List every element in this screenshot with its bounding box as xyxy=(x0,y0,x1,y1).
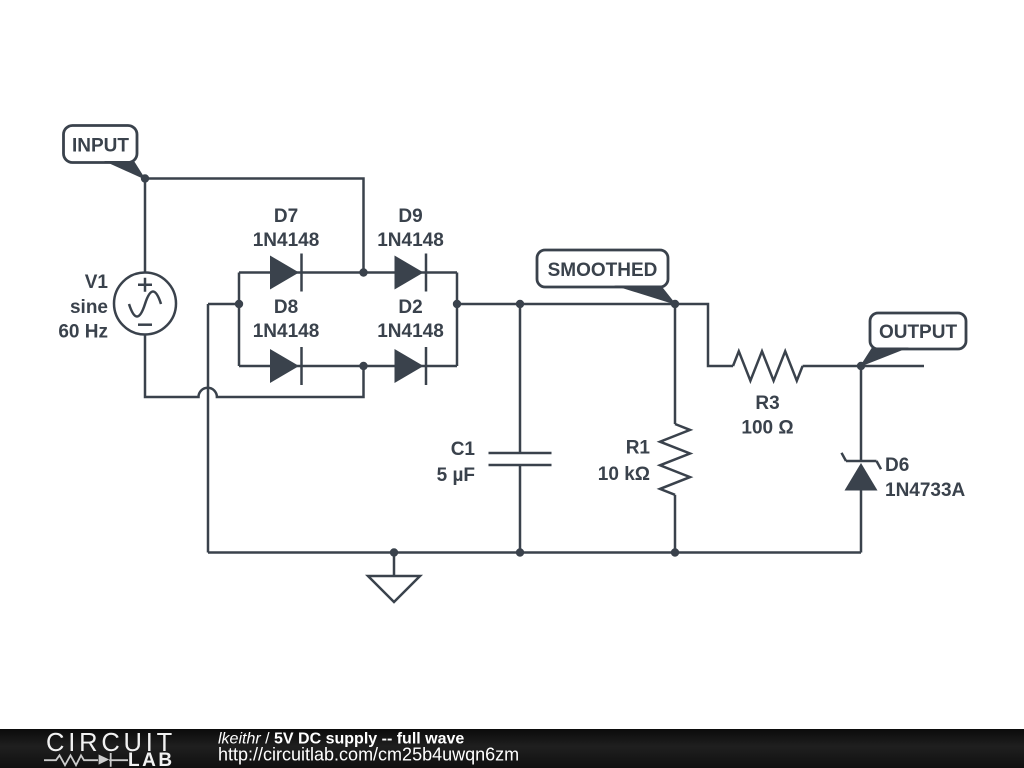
svg-text:R1: R1 xyxy=(626,438,651,459)
label D7 xyxy=(253,206,320,251)
label OUTPUT callout xyxy=(870,313,966,349)
diode D2 xyxy=(395,347,427,385)
svg-text:D2: D2 xyxy=(398,297,422,318)
svg-text:60 Hz: 60 Hz xyxy=(58,322,108,343)
diode D8 xyxy=(270,347,302,385)
svg-text:D6: D6 xyxy=(885,455,909,476)
callout tail SMOOTHED xyxy=(614,286,677,306)
node ground junction xyxy=(390,548,398,556)
svg-text:V1: V1 xyxy=(85,272,109,293)
svg-text:C1: C1 xyxy=(451,439,476,460)
resistor R1 xyxy=(660,304,690,553)
logo mini schematic xyxy=(44,753,128,767)
svg-text:1N4148: 1N4148 xyxy=(253,321,320,342)
wire middle rail xyxy=(457,304,733,366)
svg-text:D9: D9 xyxy=(398,206,422,227)
svg-text:http://circuitlab.com/cm25b4uw: http://circuitlab.com/cm25b4uwqn6zm xyxy=(218,745,519,765)
wire R3 to output stub xyxy=(803,365,924,368)
node C1 top xyxy=(516,300,524,308)
node bridge top junction xyxy=(359,268,367,276)
svg-text:SMOOTHED: SMOOTHED xyxy=(548,260,658,281)
callout tail OUTPUT xyxy=(860,348,910,368)
wire V1 top lead xyxy=(144,179,147,273)
svg-text:1N4148: 1N4148 xyxy=(253,230,320,251)
node bridge left junction xyxy=(235,300,243,308)
capacitor C1 xyxy=(489,304,552,553)
svg-text:INPUT: INPUT xyxy=(72,136,129,157)
label D2 xyxy=(377,297,444,342)
wire bridge left vertical xyxy=(238,273,241,367)
wire bottom rail xyxy=(208,551,861,554)
wire left vertical to bottom rail xyxy=(207,304,210,553)
svg-text:1N4733A: 1N4733A xyxy=(885,480,966,501)
wire bridge right vertical xyxy=(456,273,459,367)
ground xyxy=(368,553,420,603)
svg-text:5 µF: 5 µF xyxy=(437,465,475,486)
zener diode D6 xyxy=(842,366,882,553)
label SMOOTHED callout xyxy=(537,250,668,287)
svg-text:10 kΩ: 10 kΩ xyxy=(598,464,650,485)
diode D9 xyxy=(395,254,427,292)
node C1 bottom xyxy=(516,548,524,556)
node bridge right junction xyxy=(453,300,461,308)
svg-text:100 Ω: 100 Ω xyxy=(741,418,793,439)
diode D7 xyxy=(270,254,302,292)
svg-text:R3: R3 xyxy=(755,393,779,414)
node OUTPUT xyxy=(857,362,865,370)
label INPUT callout xyxy=(64,126,138,163)
svg-text:D8: D8 xyxy=(274,297,298,318)
label R3 xyxy=(741,393,793,439)
svg-text:LAB: LAB xyxy=(128,750,175,768)
wire bridge bottom row xyxy=(239,365,457,368)
label R1 xyxy=(598,438,651,486)
label V1 xyxy=(58,272,108,343)
node R1 bottom xyxy=(671,548,679,556)
callout tail INPUT xyxy=(104,161,146,180)
label D8 xyxy=(253,297,320,342)
node R1 top xyxy=(671,300,679,308)
svg-text:1N4148: 1N4148 xyxy=(377,321,444,342)
svg-text:sine: sine xyxy=(70,297,108,318)
label D6 xyxy=(885,455,966,501)
footer bar xyxy=(0,729,1024,768)
svg-text:D7: D7 xyxy=(274,206,298,227)
node INPUT net xyxy=(141,174,149,182)
wire V1 bottom to bridge (with hop) xyxy=(145,335,364,398)
wire bridge top row xyxy=(239,271,457,274)
voltage source V1 xyxy=(114,273,176,335)
label C1 xyxy=(437,439,476,486)
svg-text:OUTPUT: OUTPUT xyxy=(879,322,958,343)
node bridge bottom junction xyxy=(359,362,367,370)
label D9 xyxy=(377,206,444,251)
resistor R3 xyxy=(733,351,803,380)
wire bridge left junction stub xyxy=(208,303,239,306)
wire input top xyxy=(145,179,364,273)
svg-text:1N4148: 1N4148 xyxy=(377,230,444,251)
